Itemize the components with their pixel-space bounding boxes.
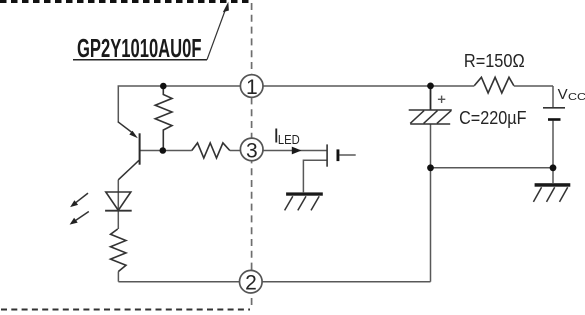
svg-text:1: 1 [246,76,258,99]
svg-text:C=220µF: C=220µF [459,108,526,128]
svg-text:CC: CC [568,91,585,103]
svg-text:GP2Y1010AU0F: GP2Y1010AU0F [77,33,202,63]
svg-text:LED: LED [278,133,300,147]
svg-text:R=150Ω: R=150Ω [464,51,525,71]
svg-text:2: 2 [245,272,257,295]
svg-text:V: V [558,86,568,103]
svg-text:3: 3 [246,139,258,162]
